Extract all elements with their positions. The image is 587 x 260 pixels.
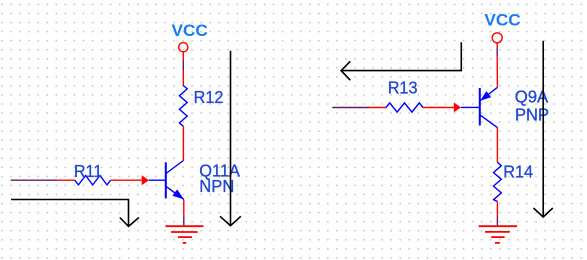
svg-text:R11: R11 (74, 161, 102, 181)
svg-text:R14: R14 (503, 161, 533, 181)
svg-text:VCC: VCC (172, 22, 208, 40)
svg-text:NPN: NPN (199, 176, 234, 196)
svg-text:R12: R12 (194, 87, 224, 107)
svg-text:VCC: VCC (484, 12, 520, 30)
svg-text:R13: R13 (388, 77, 418, 97)
